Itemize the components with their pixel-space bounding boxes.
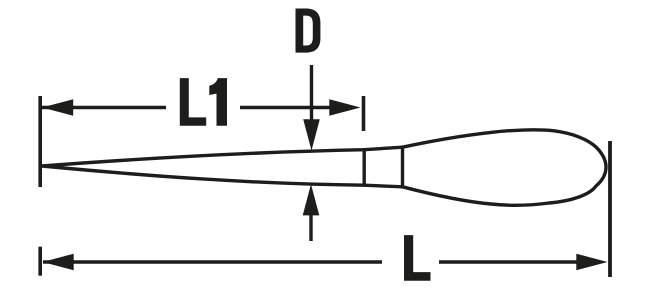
label L1 : 1 bbox=[209, 78, 227, 126]
L1 dimension line right segment bbox=[240, 106, 340, 109]
D leader vertical line bbox=[310, 65, 313, 128]
arrowhead L1 right bbox=[329, 99, 360, 116]
ferrule left line bbox=[363, 148, 366, 186]
arrowhead L right bbox=[576, 254, 607, 271]
L dimension line right segment bbox=[439, 260, 590, 263]
L dimension line left segment bbox=[43, 260, 382, 263]
ferrule right line bbox=[401, 146, 404, 189]
extension line right (handle end) bbox=[608, 141, 612, 277]
L1 dimension line left segment bbox=[42, 106, 166, 109]
label L (bottom) bbox=[404, 235, 431, 281]
arrowhead D down bbox=[303, 119, 320, 150]
extension line above ferrule bbox=[362, 96, 366, 131]
tool body outline (blade + handle) bbox=[42, 130, 606, 205]
arrowhead L1 left bbox=[42, 99, 73, 116]
extension line left (blade tip) bbox=[38, 96, 42, 187]
arrowhead up (below blade) bbox=[303, 184, 320, 215]
arrowhead L left bbox=[43, 254, 74, 271]
label D bbox=[296, 9, 321, 53]
up arrow leader line below blade bbox=[309, 205, 312, 241]
extension line left bottom tick bbox=[38, 247, 42, 276]
label L1 : L bbox=[180, 78, 206, 126]
